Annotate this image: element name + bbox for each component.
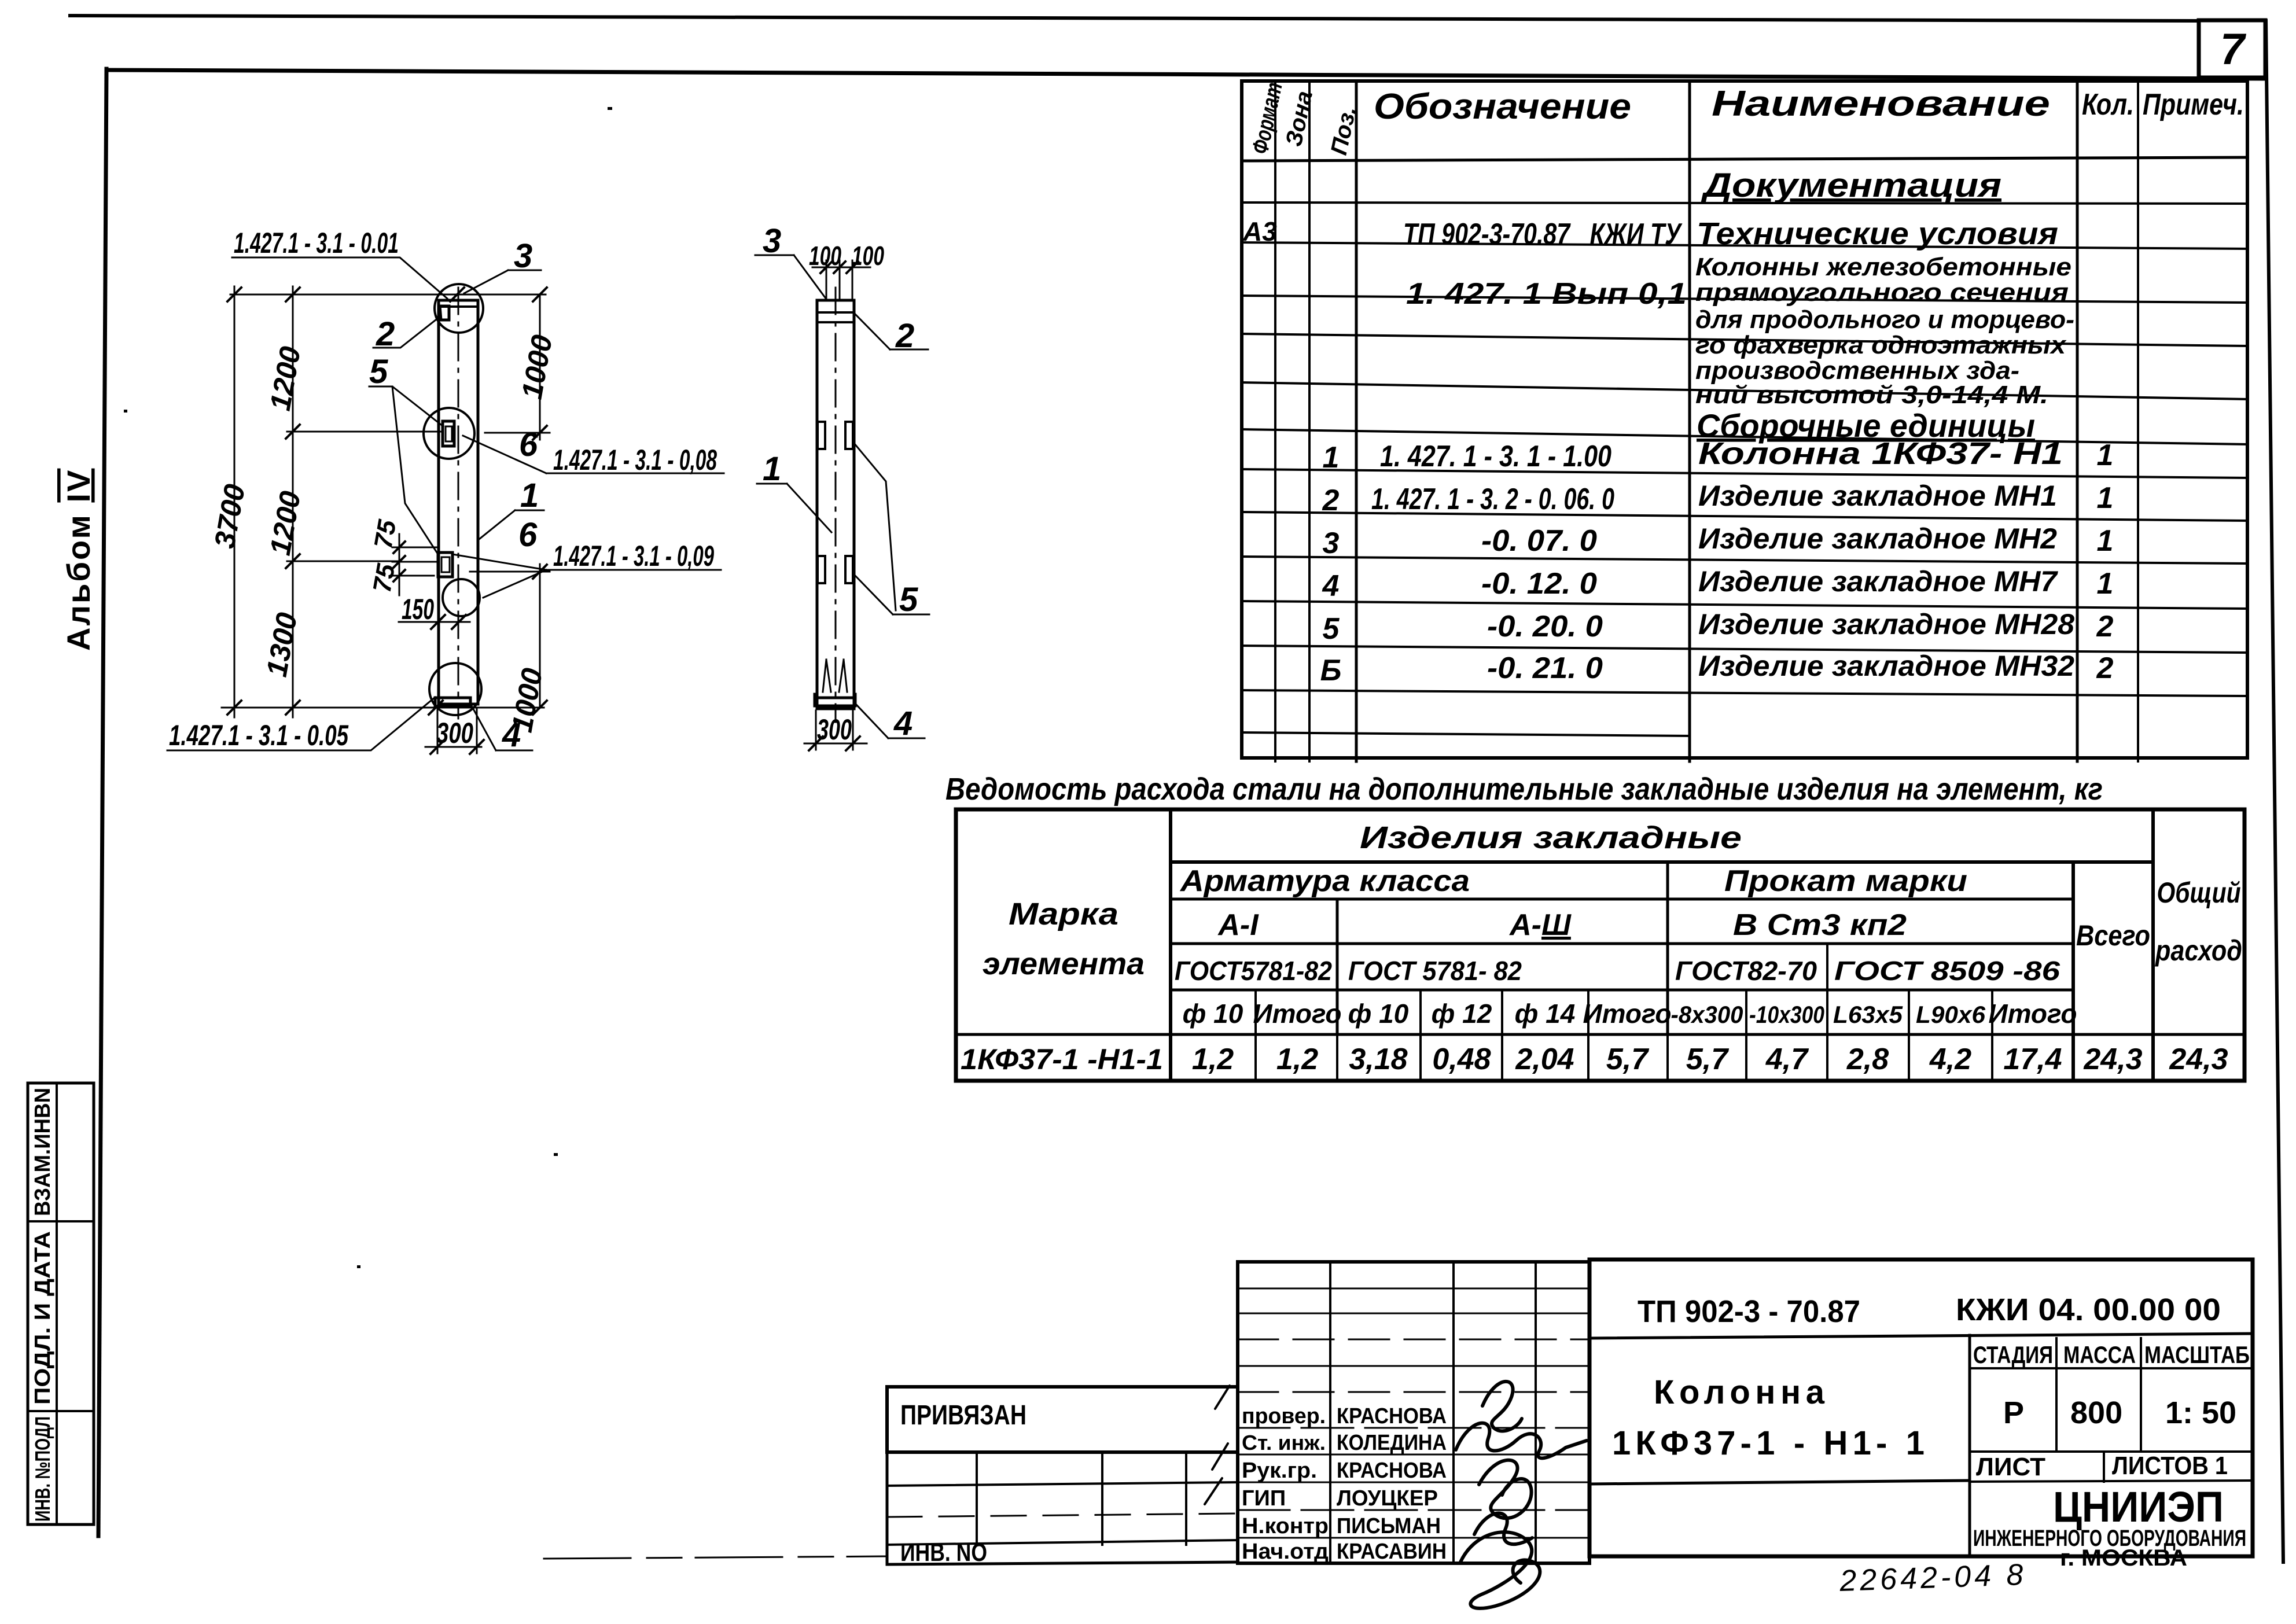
titleblock left grid vline c xyxy=(1185,1452,1187,1545)
svg-text:ПРИВЯЗАН: ПРИВЯЗАН xyxy=(900,1400,1026,1431)
svg-text:-8х300: -8х300 xyxy=(1671,1001,1743,1028)
spec col line: format/zona xyxy=(1274,81,1276,761)
svg-text:6: 6 xyxy=(519,426,538,463)
tick top dim d xyxy=(533,288,547,301)
svg-text:г. МОСКВА: г. МОСКВА xyxy=(2060,1545,2187,1571)
svg-text:Итого: Итого xyxy=(1253,999,1342,1029)
spec row line 10 xyxy=(1242,601,2247,609)
svg-text:4: 4 xyxy=(893,705,912,742)
detail circle 2 xyxy=(424,408,474,459)
spec col line: naimenovanie/kol xyxy=(2076,81,2079,761)
view B dim 100 ext c xyxy=(852,260,853,300)
view B side plate lower left xyxy=(818,556,825,583)
stamp row gip bottom xyxy=(1238,1509,1589,1511)
left strip rotated texts xyxy=(31,469,97,1522)
svg-text:Колонны железобетонные: Колонны железобетонные xyxy=(1695,253,2071,281)
vedomost -8x300/-10x300 divider xyxy=(1745,990,1747,1081)
vedomost f10/f12 divider xyxy=(1419,990,1422,1081)
svg-text:Примеч.: Примеч. xyxy=(2143,88,2244,121)
svg-text:Формат: Формат xyxy=(1248,80,1287,156)
view B anchor dash left xyxy=(823,660,831,692)
stamp col sign/date xyxy=(1535,1262,1537,1563)
tick 150 a xyxy=(431,615,445,629)
stamp row c xyxy=(1238,1339,1589,1341)
spec header bottom line xyxy=(1242,157,2247,161)
svg-text:КРАСНОВА: КРАСНОВА xyxy=(1337,1404,1447,1428)
spec row line 1 xyxy=(1242,202,2247,204)
tick bottom dim b xyxy=(286,701,300,715)
view B dim 300 line xyxy=(804,743,867,745)
vedomost texts xyxy=(945,772,2242,1076)
svg-text:800: 800 xyxy=(2070,1395,2122,1430)
svg-text:расход: расход xyxy=(2154,934,2242,967)
top border line xyxy=(70,16,2199,21)
spec row line 5 xyxy=(1242,382,2247,399)
stamp row d xyxy=(1238,1365,1589,1367)
spec row line 8 xyxy=(1242,512,2247,521)
svg-text:100: 100 xyxy=(852,241,884,271)
view B tick 300 b xyxy=(846,736,860,750)
tick bottom dim d xyxy=(533,701,547,715)
svg-text:А-I: А-I xyxy=(1217,908,1259,942)
svg-text:24,3: 24,3 xyxy=(2169,1043,2228,1076)
tick bottom dim a xyxy=(227,701,241,715)
svg-text:5,7: 5,7 xyxy=(1606,1043,1649,1076)
view A dim 300 extension right xyxy=(476,709,478,753)
svg-text:Обозначение: Обозначение xyxy=(1374,87,1631,127)
svg-text:Н.контр: Н.контр xyxy=(1242,1514,1329,1538)
view B top cap line 1 xyxy=(817,311,854,314)
svg-text:1: 1 xyxy=(763,450,781,488)
sheet frame top edge xyxy=(108,70,2265,79)
tick 1000 upper end xyxy=(533,426,547,440)
right dim 1000 lower vertical xyxy=(539,564,541,708)
right dim 1000 upper vertical xyxy=(539,294,541,440)
svg-text:провер.: провер. xyxy=(1242,1404,1326,1428)
svg-text:1: 1 xyxy=(2097,567,2114,601)
scan speck d xyxy=(124,410,127,413)
svg-text:Наименование: Наименование xyxy=(1712,84,2050,124)
leader 2 (view A) xyxy=(373,318,439,348)
svg-text:2: 2 xyxy=(1322,484,1340,517)
tick top dim b xyxy=(286,288,300,301)
tick 75 a xyxy=(393,542,405,553)
svg-text:КРАСНОВА: КРАСНОВА xyxy=(1337,1459,1447,1483)
svg-text:Общий: Общий xyxy=(2157,877,2241,909)
titleblock left grid vline a xyxy=(976,1452,978,1545)
svg-text:ТП 902-3 - 70.87: ТП 902-3 - 70.87 xyxy=(1638,1294,1860,1329)
svg-text:4,2: 4,2 xyxy=(1929,1043,1971,1076)
page number box xyxy=(2199,20,2265,78)
titleblock kolonna cell bottom xyxy=(1589,1481,1970,1484)
svg-text:2: 2 xyxy=(376,315,395,353)
svg-text:L63х5: L63х5 xyxy=(1833,1001,1903,1028)
right dim 1000 lower top extension xyxy=(470,571,550,573)
spec row line 11 xyxy=(1242,646,2247,653)
svg-text:ГОСТ 5781- 82: ГОСТ 5781- 82 xyxy=(1348,956,1522,986)
svg-text:1.427.1 - 3.1 - 0,09: 1.427.1 - 3.1 - 0,09 xyxy=(553,540,714,572)
tick bottom dim c xyxy=(429,701,443,715)
titleblock privyazan box xyxy=(887,1387,1238,1452)
svg-text:4: 4 xyxy=(1322,569,1340,603)
view B tick 100 c xyxy=(847,262,858,273)
titleblock left grid vline b xyxy=(1101,1452,1103,1545)
svg-text:5: 5 xyxy=(369,353,388,391)
svg-text:Марка: Марка xyxy=(1009,897,1118,931)
titleblock massa/masshtab divider xyxy=(2140,1338,2142,1452)
left strip divider podp/inv xyxy=(28,1410,94,1412)
view B bottom cap channel xyxy=(815,694,855,706)
left strip divider vzam/podp xyxy=(28,1220,94,1222)
leader 5 (view A) to circle2 plate xyxy=(369,386,443,426)
svg-text:2: 2 xyxy=(2096,610,2114,643)
vedomost armatura bottom xyxy=(1171,898,2073,901)
scan speck c xyxy=(608,107,612,110)
svg-text:прямоугольного сечения: прямоугольного сечения xyxy=(1695,278,2069,307)
vedomost A-I/A-III divider xyxy=(1336,899,1339,1034)
svg-text:Итого: Итого xyxy=(1583,999,1672,1029)
spec row line 3 xyxy=(1242,296,2247,303)
svg-text:Изделия закладные: Изделия закладные xyxy=(1360,820,1742,855)
svg-text:-0. 12. 0: -0. 12. 0 xyxy=(1481,567,1597,601)
stamp col role/name xyxy=(1329,1262,1331,1563)
view B side plate upper left xyxy=(818,422,825,449)
leader 3 (view A) xyxy=(464,270,541,293)
extension line at 1200 boundary xyxy=(287,431,441,433)
specification table outer border xyxy=(1242,81,2247,758)
leader 1 (view B) xyxy=(757,484,831,532)
svg-text:ГОСТ 8509 -86: ГОСТ 8509 -86 xyxy=(1834,956,2060,986)
signature squiggle 3 xyxy=(1479,1460,1532,1518)
leader 6/0.08 shelf xyxy=(463,436,724,473)
stamp row nkontr bottom xyxy=(1238,1537,1589,1539)
svg-text:ПИСЬМАН: ПИСЬМАН xyxy=(1337,1514,1441,1538)
leader 3 (view B) xyxy=(755,255,826,299)
svg-text:-10х300: -10х300 xyxy=(1749,1001,1824,1028)
svg-text:1,2: 1,2 xyxy=(1192,1043,1234,1076)
view A top cap line xyxy=(440,305,478,308)
svg-text:75: 75 xyxy=(368,562,401,595)
spec row line 6 xyxy=(1242,429,2247,444)
svg-text:Изделие закладное МН7: Изделие закладное МН7 xyxy=(1698,565,2058,598)
scan speck a xyxy=(554,1153,558,1156)
view B dim 100 ext a xyxy=(826,260,827,300)
svg-text:4,7: 4,7 xyxy=(1765,1043,1809,1076)
svg-text:ГОСТ82-70: ГОСТ82-70 xyxy=(1675,956,1817,986)
svg-text:5: 5 xyxy=(1323,612,1340,646)
svg-text:СТАДИЯ: СТАДИЯ xyxy=(1973,1341,2053,1368)
detail circle 1 xyxy=(435,284,483,333)
titleblock left grid row 3 bottom xyxy=(887,1513,1238,1517)
view A plate in circle 2 inner xyxy=(446,426,452,441)
titleblock right row tp bottom xyxy=(1589,1334,2253,1338)
titleblock right outer xyxy=(1589,1260,2253,1556)
vedomost f10/itogo divider xyxy=(1254,990,1257,1081)
signature squiggle 5 xyxy=(1460,1532,1540,1608)
svg-text:Изделие закладное МН32: Изделие закладное МН32 xyxy=(1698,650,2074,682)
titleblock stadiya/massa divider xyxy=(2055,1338,2058,1452)
svg-text:Ведомость расхода стали на до: Ведомость расхода стали на дополнительны… xyxy=(945,772,2103,807)
svg-text:Б: Б xyxy=(1320,654,1342,687)
svg-text:5,7: 5,7 xyxy=(1686,1043,1729,1076)
view A bottom dimension line xyxy=(222,707,544,709)
view B side plate lower right xyxy=(845,556,853,583)
stamp col name/sign xyxy=(1452,1262,1455,1563)
svg-text:-0. 20. 0: -0. 20. 0 xyxy=(1487,610,1603,643)
signature squiggle 2 xyxy=(1456,1423,1587,1459)
view A tick 300 a xyxy=(430,740,444,754)
svg-text:Нач.отд: Нач.отд xyxy=(1242,1540,1329,1564)
tick inner chain 1200 xyxy=(286,425,300,439)
titleblock stadiya header bottom xyxy=(1970,1367,2253,1369)
svg-text:1300: 1300 xyxy=(260,610,303,679)
view B dim 100 ext b xyxy=(839,260,841,300)
tick 150 b xyxy=(452,615,466,629)
svg-text:ний высотой 3,0-14,4 М.: ний высотой 3,0-14,4 М. xyxy=(1695,381,2048,409)
vedomost table outer border xyxy=(956,809,2245,1081)
svg-text:ф 10: ф 10 xyxy=(1348,999,1409,1029)
svg-text:300: 300 xyxy=(436,717,473,749)
view B dim 100100 line xyxy=(812,267,870,268)
view A protruding plate inner xyxy=(441,557,450,572)
titleblock texts xyxy=(900,1292,2250,1571)
detail circle 4 xyxy=(429,663,481,715)
svg-text:ИНВ. NO: ИНВ. NO xyxy=(900,1538,987,1567)
titleblock right col stadiya left xyxy=(1968,1335,1971,1556)
svg-text:2,8: 2,8 xyxy=(1846,1043,1889,1076)
sheet frame bottom edge xyxy=(544,1556,887,1559)
tick 75 b xyxy=(393,556,405,568)
detail circle 3 xyxy=(443,579,480,616)
dim chain outer 3700 vertical xyxy=(234,286,236,717)
view B dim 300 ext right xyxy=(852,710,854,750)
signature stroke slash c xyxy=(1205,1478,1222,1504)
svg-text:1000: 1000 xyxy=(516,332,558,401)
svg-text:1. 427. 1 - 3. 2 - 0. 06. 0: 1. 427. 1 - 3. 2 - 0. 06. 0 xyxy=(1371,483,1614,516)
leader 6/0.09 shelf xyxy=(452,554,721,598)
vedomost col vsego left xyxy=(2071,862,2075,1081)
view A column body xyxy=(439,300,478,704)
svg-text:1. 427. 1 - 3. 1 - 1.00: 1. 427. 1 - 3. 1 - 1.00 xyxy=(1380,440,1611,473)
svg-text:3: 3 xyxy=(514,237,532,275)
dim 150 line xyxy=(399,621,470,623)
spec col line: zona/poz xyxy=(1308,81,1311,761)
tick 1000 lower start xyxy=(533,565,547,579)
spec col line: kol/primech xyxy=(2137,81,2139,761)
titleblock values row bottom xyxy=(1970,1450,2253,1453)
view B anchor dash right xyxy=(839,660,847,692)
leader 5 (view B) xyxy=(854,443,929,614)
svg-text:1: 1 xyxy=(1323,441,1340,474)
vedomost L90/itogo divider xyxy=(1991,990,1993,1081)
svg-text:3,18: 3,18 xyxy=(1349,1043,1407,1076)
svg-text:Р: Р xyxy=(2003,1395,2024,1430)
svg-text:го фахверка одноэтажных: го фахверка одноэтажных xyxy=(1695,331,2067,359)
signature squiggle 4 xyxy=(1474,1513,1532,1544)
svg-text:1.427.1 - 3.1 - 0.01: 1.427.1 - 3.1 - 0.01 xyxy=(234,227,399,259)
view A dim 300 extension left xyxy=(437,709,439,753)
svg-text:0,48: 0,48 xyxy=(1432,1043,1491,1076)
leader 1 (view A) xyxy=(479,510,544,539)
svg-text:КОЛЕДИНА: КОЛЕДИНА xyxy=(1337,1431,1447,1455)
svg-text:элемента: элемента xyxy=(983,947,1145,981)
svg-text:ЛИСТ: ЛИСТ xyxy=(1976,1453,2045,1481)
vedomost class row bottom xyxy=(1171,942,2073,945)
view B tick 300 a xyxy=(809,736,823,750)
drawing labels xyxy=(169,222,918,754)
svg-text:Изделие закладное МН2: Изделие закладное МН2 xyxy=(1698,522,2057,555)
svg-text:1КФ37-1 - Н1- 1: 1КФ37-1 - Н1- 1 xyxy=(1612,1424,1925,1462)
svg-text:ВЗАМ.ИНВN: ВЗАМ.ИНВN xyxy=(31,1088,55,1216)
view B dim 300 ext left xyxy=(815,710,817,750)
svg-text:-0. 07. 0: -0. 07. 0 xyxy=(1481,524,1597,558)
dim chain inner vertical xyxy=(292,286,294,717)
svg-text:Технические условия: Технические условия xyxy=(1697,216,2058,251)
leader 4 (view A) xyxy=(472,706,532,750)
svg-text:для продольного и торцево-: для продольного и торцево- xyxy=(1695,305,2074,334)
svg-text:Арматура класса: Арматура класса xyxy=(1179,864,1470,898)
vedomost L63/L90 divider xyxy=(1908,990,1910,1081)
svg-text:В Ст3 кп2: В Ст3 кп2 xyxy=(1733,908,1907,942)
svg-text:2: 2 xyxy=(2096,651,2114,685)
view A centerline xyxy=(458,288,459,719)
svg-text:1000: 1000 xyxy=(506,665,549,734)
svg-text:ГОСТ5781-82: ГОСТ5781-82 xyxy=(1175,956,1332,986)
vedomost col marka right xyxy=(1169,809,1172,1081)
view A bottom plate MH7 xyxy=(435,698,470,707)
handwritten number 22642-04 8 xyxy=(1838,1558,2027,1598)
svg-text:МАСШТАБ: МАСШТАБ xyxy=(2144,1341,2250,1368)
sheet frame left edge xyxy=(98,69,106,1536)
svg-text:24,3: 24,3 xyxy=(2083,1043,2142,1076)
svg-text:2: 2 xyxy=(895,317,914,355)
dim 75 extension bottom xyxy=(392,575,434,577)
stamp table outer xyxy=(1238,1262,1589,1563)
view B side plate upper right xyxy=(845,422,853,449)
view B tick 100 b xyxy=(834,262,845,273)
spec row line 12 xyxy=(1242,690,2247,696)
svg-text:1: 1 xyxy=(2097,439,2114,472)
svg-text:1.427.1 - 3.1 - 0.05: 1.427.1 - 3.1 - 0.05 xyxy=(169,719,349,752)
svg-text:Альбом IV: Альбом IV xyxy=(60,469,97,651)
left strip text col divider xyxy=(56,1083,58,1524)
svg-text:Итого: Итого xyxy=(1989,999,2077,1029)
view A protruding plate MH28 xyxy=(438,553,452,577)
view B centerline xyxy=(835,288,837,722)
svg-text:ф 12: ф 12 xyxy=(1432,999,1492,1029)
vedomost gost row bottom xyxy=(1171,989,2073,992)
svg-text:1: 1 xyxy=(2097,524,2114,558)
tick top dim a xyxy=(227,288,241,301)
view A top dimension line xyxy=(230,294,546,296)
svg-text:А-Ш: А-Ш xyxy=(1508,908,1572,942)
svg-text:1.427.1 - 3.1 - 0,08: 1.427.1 - 3.1 - 0,08 xyxy=(553,444,717,476)
signature stroke slash a xyxy=(1215,1386,1230,1409)
svg-text:ТП 902-3-70.87 КЖИ ТУ: ТП 902-3-70.87 КЖИ ТУ xyxy=(1403,218,1683,251)
vedomost sizes row bottom xyxy=(956,1033,2245,1036)
titleblock left grid row 2 bottom xyxy=(887,1482,1238,1486)
svg-text:3: 3 xyxy=(1323,526,1340,560)
view B tick 100 a xyxy=(820,262,832,273)
signature stroke slash b xyxy=(1212,1443,1228,1470)
leader 4 (view B) xyxy=(856,705,925,738)
svg-text:Изделие закладное МН28: Изделие закладное МН28 xyxy=(1698,608,2074,640)
vedomost col obshchiy left xyxy=(2151,809,2155,1081)
spec row line 13 xyxy=(1242,732,1690,736)
svg-text:1200: 1200 xyxy=(264,488,307,557)
stamp row a xyxy=(1238,1288,1589,1290)
svg-text:ф 14: ф 14 xyxy=(1515,999,1576,1029)
svg-text:ЛИСТОВ 1: ЛИСТОВ 1 xyxy=(2112,1452,2228,1480)
svg-text:5: 5 xyxy=(899,581,918,618)
svg-text:75: 75 xyxy=(369,518,402,551)
view B column body xyxy=(817,300,854,709)
view B top cap line 2 xyxy=(817,321,854,323)
svg-text:1200: 1200 xyxy=(264,344,307,413)
vedomost itogo/-8x300 divider low xyxy=(1666,1034,1669,1081)
svg-text:Колонна: Колонна xyxy=(1654,1373,1825,1411)
leader 0.05 xyxy=(167,697,435,750)
vedomost armatura/prokat divider xyxy=(1666,862,1669,1034)
svg-text:ИНВ. №ПОДЛ: ИНВ. №ПОДЛ xyxy=(31,1416,54,1522)
vedomost header izdeliya bottom xyxy=(1171,860,2153,864)
svg-text:150: 150 xyxy=(402,593,434,625)
spec col line: oboznachenie/naimenovanie xyxy=(1688,81,1691,761)
svg-text:Кол.: Кол. xyxy=(2082,88,2134,121)
vedomost f14/itogo divider xyxy=(1587,990,1589,1081)
svg-text:100: 100 xyxy=(809,241,841,271)
vedomost itogo/f10 divider low xyxy=(1336,1034,1338,1081)
svg-text:1,2: 1,2 xyxy=(1276,1043,1318,1076)
svg-text:А3: А3 xyxy=(1242,216,1277,246)
leader 0.01 xyxy=(232,257,447,299)
svg-text:1: 1 xyxy=(2097,481,2114,515)
svg-text:1КФ37-1 -Н1-1: 1КФ37-1 -Н1-1 xyxy=(961,1043,1163,1076)
svg-text:1: 1 xyxy=(520,477,539,514)
stamp row rukgr bottom xyxy=(1238,1482,1589,1483)
spec table header texts xyxy=(1242,80,2244,687)
spec row line 9 xyxy=(1242,557,2247,564)
svg-text:КРАСАВИН: КРАСАВИН xyxy=(1337,1540,1447,1564)
svg-text:1. 427. 1 Вып 0,1: 1. 427. 1 Вып 0,1 xyxy=(1406,277,1687,311)
vedomost -10x300/L63 divider xyxy=(1826,944,1828,1081)
svg-text:-0. 21. 0: -0. 21. 0 xyxy=(1487,651,1603,685)
svg-text:17,4: 17,4 xyxy=(2003,1043,2062,1076)
stamp row prover bottom xyxy=(1238,1427,1589,1429)
titleblock list row bottom xyxy=(1970,1481,2253,1482)
signature squiggle 1 xyxy=(1482,1382,1522,1431)
view A plate in circle 2 xyxy=(443,421,454,446)
svg-text:КЖИ 04. 00.00 00: КЖИ 04. 00.00 00 xyxy=(1956,1292,2221,1327)
left strip outer xyxy=(28,1083,94,1524)
stamp row b xyxy=(1238,1313,1589,1314)
svg-text:3700: 3700 xyxy=(208,481,251,550)
svg-text:3: 3 xyxy=(763,222,781,260)
spec row line 7 xyxy=(1242,469,2247,478)
tick 75 c xyxy=(393,570,405,581)
extension line at 2400 boundary xyxy=(287,561,399,562)
tick inner chain 2400 xyxy=(286,554,300,568)
dim 75 vertical line xyxy=(399,534,400,595)
svg-text:6: 6 xyxy=(518,516,538,554)
view A dim 300 line xyxy=(425,746,481,748)
stamp row stinzh bottom xyxy=(1238,1454,1589,1456)
svg-text:Документация: Документация xyxy=(1700,167,2001,204)
stamp row e xyxy=(1238,1391,1589,1393)
svg-text:Колонна 1КФ37- Н1: Колонна 1КФ37- Н1 xyxy=(1698,436,2063,471)
titleblock left grid left edge lower xyxy=(886,1452,889,1564)
svg-text:Зона: Зона xyxy=(1281,89,1318,149)
